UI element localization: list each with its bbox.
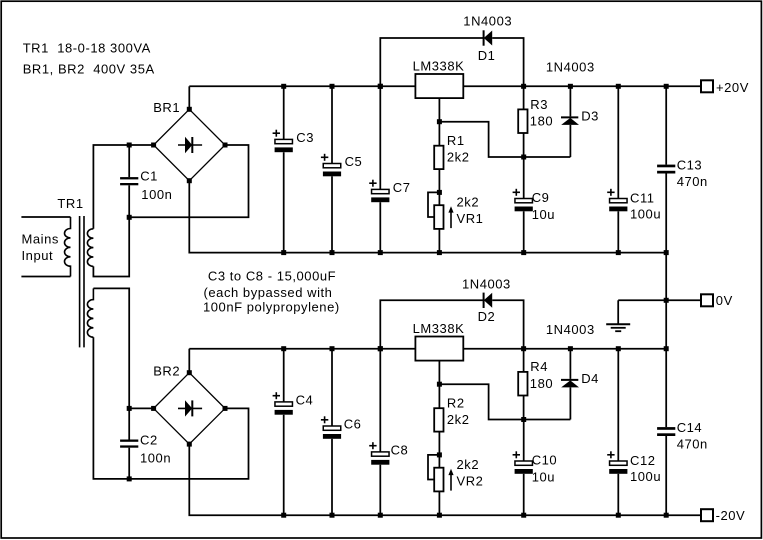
capacitor C2 — [120, 440, 138, 448]
wire: C2 bottom lead — [128, 448, 130, 479]
wire: C10 top lead — [523, 420, 525, 462]
wire: R4 top lead — [523, 349, 525, 372]
wire: VR2 body leads — [438, 455, 440, 515]
label: LM338K (top) — [413, 58, 465, 73]
svg-text:BR2: BR2 — [153, 363, 180, 378]
label: D4 part 1N4003 — [546, 322, 595, 337]
svg-text:100nF polypropylene): 100nF polypropylene) — [203, 300, 340, 315]
label: D3 — [581, 108, 599, 123]
wire: C4 top lead — [283, 349, 285, 402]
label: C13 value 470n — [677, 174, 708, 189]
capacitor C10 — [513, 451, 533, 474]
svg-text:R1: R1 — [447, 133, 465, 148]
bridge rectifier BR2 — [154, 373, 225, 444]
svg-text:1N4003: 1N4003 — [546, 60, 595, 75]
svg-text:C2: C2 — [140, 432, 158, 447]
svg-text:470n: 470n — [677, 437, 708, 452]
svg-text:C11: C11 — [630, 190, 655, 205]
junction: C2 top node — [127, 406, 132, 411]
junction: D3 at output rail — [568, 84, 573, 89]
transformer TR1 secondary winding 1 — [87, 229, 93, 267]
svg-text:C5: C5 — [345, 154, 363, 169]
label: BR1, BR2 400V 35A — [23, 62, 155, 77]
junction: BR2 AC left vertex — [151, 406, 156, 411]
label: C2 — [140, 432, 158, 447]
label: C11 — [630, 190, 655, 205]
wire: 0V rail down to lower section — [665, 253, 667, 349]
capacitor C12 — [607, 451, 627, 474]
label: C11 value 100u — [630, 206, 661, 221]
svg-text:R2: R2 — [447, 396, 465, 411]
junction: 0V branch node — [664, 298, 669, 303]
junction: D2/R4 at regulator output rail — [521, 346, 526, 351]
wire: secondary 2 top to C2/BR2 — [93, 288, 129, 408]
wire: ADJ to reference junction (top) — [439, 122, 523, 157]
wire: C1 top lead — [128, 145, 130, 177]
label: C7 — [393, 180, 411, 195]
wire: R3 top lead — [523, 86, 525, 109]
label: R4 value 180 — [530, 376, 553, 391]
junction: ADJ node (top) — [437, 119, 442, 124]
svg-text:C12: C12 — [630, 453, 656, 468]
wire: secondary 1 bottom return — [93, 217, 129, 276]
label: note (each bypassed with — [204, 285, 333, 300]
label: R2 — [447, 396, 465, 411]
wire: C14 bottom lead — [665, 436, 667, 515]
junction: C11 at 0V rail — [616, 250, 621, 255]
wire: BR2 negative drop to -V rail — [189, 444, 701, 515]
ground — [606, 324, 630, 331]
wire: secondary 1 top to BR1 AC left — [93, 145, 153, 229]
wire: C9 bottom lead — [523, 211, 525, 252]
terminal: +20V output — [701, 80, 713, 92]
label: 0V — [716, 293, 733, 308]
wire: C5 top lead — [331, 86, 333, 163]
svg-text:TR1: TR1 — [57, 196, 83, 211]
junction: BR2 + output (top vertex) — [187, 370, 192, 375]
svg-text:TR1 18-0-18 300VA: TR1 18-0-18 300VA — [23, 41, 151, 56]
junction: R3/C9/D3 reference node — [521, 155, 526, 160]
svg-text:D4: D4 — [581, 371, 599, 386]
capacitor C1 — [120, 177, 138, 185]
junction: C12 at 0V rail — [616, 346, 621, 351]
junction: R2/VR2 node — [437, 452, 442, 457]
junction: BR1 - output (bottom vertex) — [187, 178, 192, 183]
svg-text:C6: C6 — [344, 416, 362, 431]
svg-text:VR1: VR1 — [457, 211, 484, 226]
label: VR1 — [457, 211, 484, 226]
label: D3 part 1N4003 — [546, 60, 595, 75]
junction: C5 at 0V rail — [330, 250, 335, 255]
svg-text:1N4003: 1N4003 — [462, 277, 511, 292]
junction: BR1 AC right vertex — [223, 143, 228, 148]
junction: BR2 - output (bottom vertex) — [187, 442, 192, 447]
wire: LM338K bottom ADJ pin lead — [438, 361, 440, 385]
junction: C10 at -V rail — [521, 513, 526, 518]
junction: C1 bottom node — [127, 215, 132, 220]
svg-text:C10: C10 — [532, 453, 558, 468]
junction: C3 at input rail — [281, 84, 286, 89]
junction: D4 at 0V rail — [568, 346, 573, 351]
junction: C5 at input rail — [330, 84, 335, 89]
capacitor C9 — [513, 189, 533, 212]
diode D3 (1N4003) — [561, 117, 579, 125]
svg-text:100u: 100u — [630, 469, 661, 484]
capacitor C4 — [273, 392, 293, 414]
wire: VR1 wiper link — [428, 192, 439, 217]
svg-text:LM338K: LM338K — [413, 321, 465, 336]
junction: C9 at 0V rail — [521, 250, 526, 255]
junction: C4 at -V rail — [281, 513, 286, 518]
label: C10 value 10u — [532, 470, 555, 485]
junction: C8 at -V rail — [378, 513, 383, 518]
label: +20V — [716, 80, 749, 95]
svg-text:C8: C8 — [391, 442, 409, 457]
svg-text:C7: C7 — [393, 180, 411, 195]
resistor R2 — [434, 408, 443, 431]
wire: BR1 AC right to C1 bottom — [129, 145, 248, 217]
svg-text:BR1: BR1 — [153, 100, 180, 115]
wire: D1 cathode side — [380, 38, 483, 86]
svg-text:LM338K: LM338K — [413, 58, 465, 73]
wire: D3 anode lead — [569, 125, 571, 157]
svg-text:Input: Input — [22, 248, 54, 263]
svg-text:D1: D1 — [478, 48, 496, 63]
capacitor C11 — [607, 189, 627, 212]
junction: ADJ node (bottom) — [437, 382, 442, 387]
wire: C3 bottom lead — [283, 152, 285, 252]
wire: C13 top lead — [665, 86, 667, 164]
wire: mains input top lead — [21, 216, 70, 218]
label: R3 — [530, 97, 548, 112]
svg-text:C3: C3 — [296, 130, 314, 145]
svg-text:D2: D2 — [478, 309, 496, 324]
svg-text:C3 to C8 - 15,000uF: C3 to C8 - 15,000uF — [208, 268, 336, 283]
wire: ADJ to reference junction (bottom) — [439, 384, 523, 419]
svg-text:2k2: 2k2 — [447, 412, 470, 427]
capacitor C8 — [369, 442, 389, 464]
svg-text:D3: D3 — [581, 108, 599, 123]
svg-text:1N4003: 1N4003 — [546, 322, 595, 337]
svg-text:+20V: +20V — [716, 80, 749, 95]
wire: C3 top lead — [283, 86, 285, 139]
svg-text:C9: C9 — [532, 190, 550, 205]
junction: D1/C7 at input rail — [378, 84, 383, 89]
wire: C6 top lead — [331, 349, 333, 426]
label: D2 — [478, 309, 496, 324]
label: D1 — [478, 48, 496, 63]
wire: C7 top lead — [379, 86, 381, 189]
label: TR1 (transformer) — [57, 196, 83, 211]
wire: R1 bottom lead — [438, 169, 440, 192]
label: BR2 — [153, 363, 180, 378]
wire: D2 cathode side — [380, 300, 483, 348]
junction: R4/C10/D4 reference node — [521, 417, 526, 422]
junction: C12 at -V rail — [616, 513, 621, 518]
label: VR2 value 2k2 — [457, 457, 480, 472]
junction: BR2 AC right vertex — [223, 406, 228, 411]
wire: +V input rail (top) — [189, 85, 701, 87]
label: TR1 18-0-18 300VA — [23, 41, 151, 56]
svg-text:10u: 10u — [532, 207, 555, 222]
junction: C6 at 0V rail — [330, 346, 335, 351]
svg-text:180: 180 — [530, 376, 553, 391]
junction: D1/R3 at output rail — [521, 84, 526, 89]
wire: 0V terminal lead — [618, 299, 701, 301]
wire: D2 anode side — [492, 300, 523, 348]
junction: C7 at input rail — [378, 84, 383, 89]
wire: D1 anode side — [492, 38, 523, 86]
junction: C13 at 0V rail corner — [664, 250, 669, 255]
svg-text:10u: 10u — [532, 470, 555, 485]
wire: BR1 positive riser — [188, 86, 190, 109]
wire: R2 bottom lead — [438, 432, 440, 455]
svg-text:(each bypassed with: (each bypassed with — [204, 285, 333, 300]
svg-text:BR1, BR2 400V 35A: BR1, BR2 400V 35A — [23, 62, 155, 77]
wire: C5 bottom lead — [331, 176, 333, 252]
wire: 0V input rail (bottom section) — [189, 348, 666, 350]
svg-text:470n: 470n — [677, 174, 708, 189]
wire: C9 top lead — [523, 157, 525, 199]
junction: C2 bottom node — [127, 476, 132, 481]
wire: reference node to D4 anode — [524, 419, 571, 421]
wire: D3 cathode lead — [569, 86, 571, 116]
resistor R1 — [434, 146, 443, 169]
wire: C12 bottom lead — [617, 474, 619, 515]
wire: D4 cathode lead — [569, 349, 571, 379]
wire: R1 top lead — [438, 122, 440, 146]
junction: VR2 at -V rail — [437, 513, 442, 518]
svg-text:C4: C4 — [296, 392, 314, 407]
junction: C3 at 0V rail — [281, 250, 286, 255]
potentiometer VR1 — [434, 205, 443, 229]
transformer TR1 core — [80, 216, 84, 347]
wire: R4 bottom lead — [523, 396, 525, 420]
label: R4 — [530, 359, 548, 374]
label: C9 — [532, 190, 550, 205]
svg-text:100u: 100u — [630, 206, 661, 221]
capacitor C6 — [321, 416, 341, 439]
junction: VR1 at 0V rail — [437, 250, 442, 255]
label: note 100nF polypropylene) — [203, 300, 340, 315]
label: D1 part 1N4003 — [463, 13, 512, 28]
capacitor C3 — [273, 130, 293, 153]
svg-text:R4: R4 — [530, 359, 548, 374]
label: D4 — [581, 371, 599, 386]
label: VR2 — [457, 473, 484, 488]
wire: C12 top lead — [617, 349, 619, 461]
label: C5 — [345, 154, 363, 169]
label: note C3 to C8 - 15,000uF — [208, 268, 336, 283]
label: C6 — [344, 416, 362, 431]
resistor R4 — [518, 372, 527, 396]
label: BR1 — [153, 100, 180, 115]
junction: BR1 + output (top vertex) — [187, 107, 192, 112]
wire: C6 bottom lead — [331, 439, 333, 515]
capacitor C13 — [657, 165, 675, 174]
label: C9 value 10u — [532, 207, 555, 222]
junction: D2/C8 at 0V rail — [378, 346, 383, 351]
label: R2 value 2k2 — [447, 412, 470, 427]
wire: VR1 body leads — [438, 192, 440, 252]
label: C12 value 100u — [630, 469, 661, 484]
svg-text:100n: 100n — [141, 187, 172, 202]
svg-text:C13: C13 — [677, 157, 703, 172]
svg-text:0V: 0V — [716, 293, 733, 308]
wire: C8 top lead — [379, 349, 381, 452]
junction: C13 at output rail — [664, 84, 669, 89]
junction: C1 top node — [127, 143, 132, 148]
junction: BR1 AC left vertex — [151, 143, 156, 148]
wire: R3 bottom lead — [523, 133, 525, 157]
wire: BR1 negative drop to 0V rail — [189, 181, 666, 253]
capacitor C7 — [369, 180, 389, 203]
capacitor C5 — [321, 154, 341, 177]
svg-text:1N4003: 1N4003 — [463, 13, 512, 28]
transformer TR1 primary winding — [64, 217, 70, 277]
svg-text:2k2: 2k2 — [457, 194, 480, 209]
label: C4 — [296, 392, 314, 407]
bridge rectifier BR1 — [154, 109, 225, 180]
junction: C14 at -V rail — [664, 513, 669, 518]
wiper arrow VR2 — [448, 469, 453, 491]
wire: C10 bottom lead — [523, 474, 525, 515]
wire: C7 bottom lead — [379, 202, 381, 252]
wire: C2 top lead — [128, 408, 130, 439]
label: LM338K (bottom) — [413, 321, 465, 336]
label: C10 — [532, 453, 558, 468]
label: D2 part 1N4003 — [462, 277, 511, 292]
junction: C4 at 0V rail — [281, 346, 286, 351]
diode D4 (1N4003) — [561, 380, 579, 388]
op-amp U2: regulator LM338K (bottom) — [415, 337, 463, 361]
wire: C2 node to BR2 AC left — [129, 407, 153, 409]
potentiometer VR2 — [434, 468, 443, 492]
junction: R1/VR1 node — [437, 190, 442, 195]
svg-text:2k2: 2k2 — [457, 457, 480, 472]
svg-text:100n: 100n — [140, 450, 171, 465]
junction: C6 at -V rail — [330, 513, 335, 518]
diode D1 (1N4003) — [484, 30, 493, 45]
wire: D4 anode lead — [569, 387, 571, 419]
wire: C1 bottom lead — [128, 185, 130, 217]
wire: BR2 positive riser — [188, 349, 190, 373]
svg-text:180: 180 — [530, 114, 553, 129]
svg-text:C14: C14 — [677, 420, 703, 435]
terminal: 0V output — [701, 294, 713, 306]
op-amp U1: regulator LM338K (top) — [415, 74, 463, 98]
capacitor C14 — [657, 427, 675, 436]
wiper arrow VR1 — [448, 206, 453, 228]
label: -20V — [716, 508, 746, 523]
label: C13 — [677, 157, 703, 172]
svg-text:R3: R3 — [530, 97, 548, 112]
junction: C11 at output rail — [616, 84, 621, 89]
label: C8 — [391, 442, 409, 457]
junction: C7 at 0V rail — [378, 250, 383, 255]
label: Mains — [22, 232, 59, 247]
label: C12 — [630, 453, 656, 468]
wire: C11 bottom lead — [617, 211, 619, 252]
label: C2 value 100n — [140, 450, 171, 465]
wire: C14 top lead — [665, 349, 667, 427]
svg-text:Mains: Mains — [22, 232, 59, 247]
wire: mains input bottom lead — [21, 276, 70, 278]
junction: C14 at 0V rail — [664, 346, 669, 351]
diode D2 (1N4003) — [484, 293, 493, 308]
label: C1 — [140, 169, 158, 184]
svg-text:VR2: VR2 — [457, 473, 484, 488]
wire: VR2 wiper link — [428, 455, 439, 480]
junction: C8 at 0V rail — [378, 346, 383, 351]
label: C14 — [677, 420, 703, 435]
svg-text:-20V: -20V — [716, 508, 746, 523]
label: C3 — [296, 130, 314, 145]
svg-text:C1: C1 — [140, 169, 158, 184]
terminal: -20V output — [701, 509, 713, 521]
wire: R2 top lead — [438, 384, 440, 408]
wire: reference node to D3 anode — [524, 156, 571, 158]
wire: ground stub — [617, 300, 619, 324]
label: R3 value 180 — [530, 114, 553, 129]
transformer TR1 secondary winding 2 — [87, 288, 93, 337]
svg-text:2k2: 2k2 — [447, 149, 470, 164]
label: Input — [22, 248, 54, 263]
wire: LM338K top ADJ pin lead — [438, 98, 440, 122]
label: R1 — [447, 133, 465, 148]
wire: C13 bottom lead — [665, 174, 667, 253]
label: R1 value 2k2 — [447, 149, 470, 164]
label: C1 value 100n — [141, 187, 172, 202]
label: VR1 value 2k2 — [457, 194, 480, 209]
wire: C8 bottom lead — [379, 465, 381, 516]
wire: secondary 2 bottom return — [93, 337, 248, 479]
resistor R3 — [518, 109, 527, 133]
label: C14 value 470n — [677, 437, 708, 452]
wire: C4 bottom lead — [283, 415, 285, 516]
wire: C11 top lead — [617, 86, 619, 198]
